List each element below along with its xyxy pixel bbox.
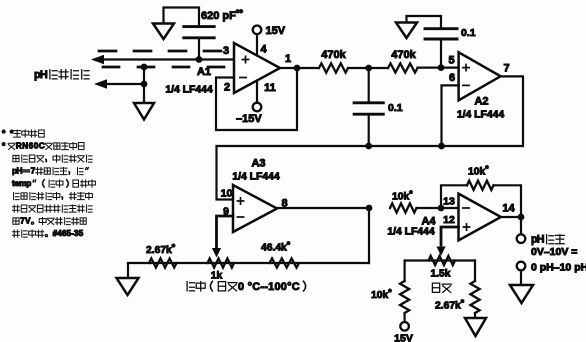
label P2 calibration (432, 283, 439, 292)
node A2 +input (438, 64, 445, 71)
wire R6 to output (494, 185, 522, 217)
wire A1 -15V pin 11 (256, 81, 258, 103)
svg-text:1/4 LF444: 1/4 LF444 (457, 110, 505, 121)
svg-text:temp: temp (12, 178, 31, 188)
wire left branch (404, 261, 406, 282)
wire A3 output (277, 207, 369, 209)
wire shield tap (143, 67, 145, 103)
svg-text:1/4 LF444: 1/4 LF444 (387, 227, 435, 238)
svg-text:–15V: –15V (236, 113, 262, 125)
wire A3 feedback down (368, 208, 370, 263)
svg-text:1/4 LF444: 1/4 LF444 (232, 172, 280, 183)
wire A4 feedback (441, 185, 467, 208)
svg-text:*: * (2, 141, 6, 151)
minus input mark A1 (240, 77, 246, 79)
wire bootstrap line (217, 146, 524, 200)
op-amp A2 (459, 52, 501, 100)
svg-text:0 pH–10 pH: 0 pH–10 pH (531, 262, 586, 274)
svg-text:10k*: 10k* (371, 287, 392, 301)
svg-text:4: 4 (260, 44, 267, 56)
svg-text:13: 13 (443, 196, 455, 208)
wire output to terminal (520, 217, 522, 234)
node shield junction lower (141, 81, 148, 88)
resistor R4 46.4k (270, 258, 300, 267)
svg-text:620 pF**: 620 pF** (201, 8, 243, 22)
wire A4 pin 12 to pot wiper (441, 227, 459, 245)
node A1 output (294, 65, 301, 72)
capacitor C2 0.1 wire top (368, 68, 370, 103)
arrow pot P1 wiper (212, 248, 221, 258)
wire right branch (474, 261, 476, 282)
svg-text:7: 7 (31, 166, 36, 176)
terminal -15V A1 (253, 103, 262, 112)
wire ground loop to C3 (407, 16, 442, 29)
ground temp network (117, 278, 139, 295)
resistor R3 2.67k (149, 258, 177, 267)
svg-text:10k*: 10k* (392, 189, 413, 203)
terminal +15V A1 (253, 26, 262, 35)
svg-text:0 °C--100°C: 0 °C--100°C (238, 281, 300, 293)
svg-text:A2: A2 (474, 96, 488, 108)
ground C1 (153, 24, 174, 40)
wire A1 +15V pin 4 (256, 34, 258, 56)
svg-text:2: 2 (224, 82, 230, 94)
svg-text:pH: pH (34, 69, 48, 81)
capacitor C2 0.1 (354, 103, 383, 114)
capacitor C1 620pF (184, 27, 214, 38)
arrow input center conductor (91, 55, 104, 65)
svg-text:2.67k*: 2.67k* (146, 242, 176, 256)
svg-text:6: 6 (449, 72, 455, 84)
ground input shield (134, 103, 154, 120)
resistor R6 10k feedback (467, 181, 494, 190)
node A3 output to feedback (366, 205, 373, 212)
svg-text:10k*: 10k* (468, 164, 489, 178)
node A4 output (518, 214, 525, 221)
wire A1 output (280, 67, 319, 69)
wire R5 to A4 (417, 207, 459, 209)
plus input mark A4 (463, 224, 469, 230)
wire C3 to A2 input (440, 39, 442, 68)
wire reference to ground (520, 271, 522, 286)
node shield junction upper (141, 64, 148, 71)
svg-text:1/4 LF444: 1/4 LF444 (165, 85, 213, 96)
wire pot P2 1.5k (405, 259, 475, 261)
capacitor C3 0.1 (425, 29, 457, 39)
svg-text:2.67k*: 2.67k* (435, 298, 465, 312)
svg-text:0.1: 0.1 (388, 102, 403, 114)
resistor R5 10k (390, 203, 417, 212)
svg-text:11: 11 (264, 82, 276, 94)
ground output reference (510, 285, 533, 303)
minus input mark A2 (463, 84, 469, 86)
wire C1 to input (198, 38, 200, 60)
svg-text:A1: A1 (197, 66, 211, 78)
resistor R1 470k (319, 63, 348, 72)
arrow input shield (94, 79, 107, 89)
resistor R2 470k (388, 63, 418, 72)
resistor R7 10k (400, 281, 409, 313)
op-amp A4 (459, 194, 501, 241)
potentiometer P2 1.5k (429, 256, 456, 265)
svg-text:pH: pH (12, 166, 23, 176)
plus input mark A1 (242, 56, 248, 62)
svg-text:14: 14 (502, 203, 515, 215)
op-amp A1 (234, 43, 280, 93)
shield dashed line upper (99, 50, 228, 53)
arrow pot P2 wiper (436, 247, 445, 257)
node A2 feedback (438, 143, 445, 150)
minus input mark A4 (463, 207, 469, 209)
op-amp A3 (233, 185, 277, 232)
svg-text:3: 3 (223, 45, 229, 57)
shield dashed line lower (103, 66, 228, 69)
svg-text:0V–10V =: 0V–10V = (531, 246, 577, 258)
svg-text:470k: 470k (391, 49, 416, 61)
svg-text:* *: * * (2, 128, 14, 138)
wire A2 feedback pin 6 (442, 85, 459, 146)
wire C2 to bootstrap line (368, 114, 370, 146)
terminal pH output (517, 234, 526, 243)
resistor R8 2.67k (470, 281, 479, 313)
label temperature calibration (187, 282, 194, 291)
wire R8 to ground (474, 313, 476, 318)
svg-text:7: 7 (503, 63, 509, 75)
minus input mark A3 (237, 216, 243, 218)
svg-text:A3: A3 (251, 158, 265, 170)
svg-text:pH: pH (531, 234, 545, 246)
node A4 -input (438, 205, 445, 212)
terminal 15V bottom (400, 322, 409, 331)
svg-text:46.4k*: 46.4k* (261, 240, 291, 254)
wire R7 to terminal (404, 313, 406, 322)
ground temp network wire (127, 263, 129, 278)
wire R2 to A2 (418, 66, 459, 68)
svg-text:1.5k: 1.5k (430, 269, 450, 280)
potentiometer P1 1k (208, 258, 235, 267)
wire A4 output (501, 216, 521, 218)
svg-text:5: 5 (448, 55, 454, 67)
svg-text:1k: 1k (211, 271, 223, 282)
svg-text:#465-35: #465-35 (53, 228, 84, 238)
node C1 input junction (196, 56, 203, 63)
wire temp network (128, 262, 369, 264)
svg-text:15V: 15V (394, 333, 413, 342)
svg-text:12: 12 (443, 214, 455, 226)
wire R1 to R2 (348, 67, 388, 69)
svg-text:1: 1 (285, 53, 291, 65)
node filter mid (365, 65, 372, 72)
wire shield arm (99, 83, 144, 85)
wire A3 pin 9 to pot wiper (217, 216, 234, 247)
svg-text:7V: 7V (20, 216, 31, 226)
svg-text:0.1: 0.1 (461, 27, 476, 39)
plus input mark A3 (237, 198, 243, 204)
svg-text:15V: 15V (266, 25, 286, 37)
svg-text:470k: 470k (321, 49, 346, 61)
wire A2 output (501, 76, 523, 146)
svg-text:RN60C: RN60C (16, 141, 45, 151)
terminal pH reference (517, 262, 526, 271)
node C2 bootstrap (365, 143, 372, 150)
plus input mark A2 (463, 65, 469, 71)
wire A1 feedback (216, 68, 297, 130)
wire ground loop to C1 (164, 8, 200, 27)
ground span network (465, 318, 486, 336)
svg-text:10: 10 (221, 188, 233, 200)
wire pH probe center conductor (96, 58, 234, 60)
ground C3 (396, 23, 417, 39)
